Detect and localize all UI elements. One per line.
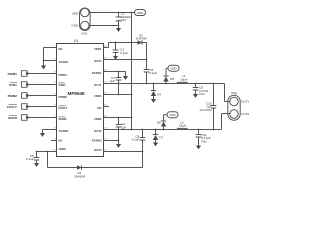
capacitor C9 (193, 84, 209, 97)
svg-text:Film: Film (199, 92, 205, 96)
wire pin18 PGND1 (104, 72, 126, 77)
power flag VDD D5 (168, 65, 179, 71)
wire rail1 OUT1 (104, 84, 230, 102)
node D4 rail1 (153, 83, 155, 85)
svg-text:CN1: CN1 (81, 32, 87, 36)
power flag VDD D6 (167, 112, 178, 118)
capacitor C1 (116, 12, 132, 26)
ground C9 (193, 94, 198, 98)
capacitor C6 (26, 152, 39, 164)
wire VDD bus (131, 13, 133, 130)
wire FAULT (29, 106, 57, 108)
node VDD bus top (131, 42, 133, 44)
svg-text:1N4148: 1N4148 (74, 174, 85, 178)
diode D4 (151, 84, 161, 100)
svg-text:Film: Film (201, 139, 207, 143)
svg-text:OUT1: OUT1 (94, 83, 102, 87)
node D6 rail2 (163, 129, 165, 131)
svg-text:OUT2: OUT2 (94, 129, 102, 133)
node BST2 (142, 151, 144, 153)
svg-text:VDD: VDD (72, 11, 79, 15)
node C8 rail2 (142, 129, 144, 131)
connector PWM1 (8, 71, 29, 77)
svg-text:10µH: 10µH (180, 77, 187, 81)
wire SHDN (29, 117, 57, 119)
capacitor C10 (200, 84, 217, 130)
capacitor C3 (110, 72, 122, 95)
ground AGND1 (41, 61, 46, 70)
svg-text:0.1µF: 0.1µF (150, 71, 158, 75)
node C4 top (118, 117, 120, 119)
node C11 rail2 (198, 129, 200, 131)
node VDD bus pin14 (131, 117, 133, 119)
svg-text:VDD2: VDD2 (94, 117, 102, 121)
svg-text:VDD: VDD (170, 67, 177, 71)
connector PWM2 (8, 93, 29, 99)
svg-text:PWM2: PWM2 (59, 95, 68, 99)
svg-text:D5: D5 (170, 77, 174, 81)
ground input (116, 26, 121, 32)
svg-text:BST1: BST1 (94, 59, 102, 63)
svg-text:VDR2: VDR2 (59, 147, 67, 151)
wire BST1 bus (146, 43, 148, 84)
svg-text:STB1: STB1 (9, 83, 17, 87)
wire pin16 VDD1 (104, 94, 132, 96)
node C3 bottom (118, 94, 120, 96)
svg-text:PGND2: PGND2 (92, 138, 102, 142)
svg-text:FAULT: FAULT (7, 105, 17, 109)
ground C6 (34, 163, 39, 167)
node AGND1 (43, 60, 45, 62)
IC U1 MP8646 (53, 39, 107, 157)
svg-text:VDD: VDD (137, 11, 144, 15)
inductor L2 (177, 121, 187, 130)
wire pin8 AGND2 (43, 129, 57, 131)
capacitor C2 (113, 43, 128, 57)
wire pin11 BST2 (104, 151, 143, 153)
connector FAULT (7, 104, 28, 110)
svg-text:OUT2: OUT2 (241, 112, 249, 116)
connector SHDN (8, 115, 28, 121)
capacitor C8 (132, 134, 146, 141)
wire pin19 BST1 (104, 59, 147, 61)
inductor L1 (177, 74, 187, 83)
svg-text:CN2: CN2 (231, 91, 237, 95)
svg-text:4: 4 (54, 82, 56, 84)
diode D7 (153, 130, 164, 143)
svg-text:PWM1: PWM1 (59, 73, 68, 77)
wire rail2 OUT2 (104, 114, 230, 130)
diode D5 (163, 68, 174, 83)
svg-text:VDD: VDD (169, 113, 176, 117)
node C1 bottom junction (118, 25, 120, 27)
node PGND2 (118, 140, 120, 142)
wire pin14 VDD2 (104, 117, 132, 119)
svg-text:Film/63V: Film/63V (200, 108, 212, 112)
node C2 junction (115, 42, 117, 44)
wire GND input (89, 25, 119, 27)
capacitor C5 (144, 68, 158, 75)
connector CN2 (228, 91, 250, 120)
diode D1 (48, 165, 143, 178)
svg-text:PWM2: PWM2 (8, 94, 18, 98)
wire pin9 stub (51, 140, 57, 142)
ground D7 (153, 143, 158, 147)
capacitor C11 (196, 130, 211, 146)
wire pin12 PGND2 (104, 140, 119, 142)
svg-text:SHDN: SHDN (8, 116, 18, 120)
wire PWM1 (29, 73, 57, 75)
node C1 top junction (118, 12, 120, 14)
svg-text:PWM1: PWM1 (8, 72, 18, 76)
node VDD bus pin16 (131, 94, 133, 96)
svg-text:VDR1: VDR1 (94, 47, 102, 51)
node C6 junction (36, 151, 38, 153)
wire VDD input rail (89, 12, 135, 14)
node C3 top (118, 71, 120, 73)
power flag VDD top (135, 10, 146, 16)
svg-text:1µF: 1µF (121, 125, 126, 129)
svg-text:1N4148: 1N4148 (136, 37, 147, 41)
svg-text:0.1µF: 0.1µF (132, 138, 140, 142)
connector STB1 (9, 82, 28, 88)
svg-text:MP8646: MP8646 (68, 91, 86, 96)
wire STB1 (29, 84, 57, 86)
wire pin2 AGND1 (44, 60, 57, 62)
svg-text:GND: GND (71, 24, 79, 28)
svg-text:NC: NC (59, 47, 63, 51)
svg-text:U1: U1 (74, 39, 79, 43)
svg-text:NC: NC (97, 106, 101, 110)
node C9 rail1 (195, 83, 197, 85)
svg-text:OUT1: OUT1 (241, 100, 249, 104)
ground D4 (151, 99, 156, 103)
svg-text:0.1µF: 0.1µF (26, 157, 34, 161)
node C10 rail1 (213, 83, 215, 85)
svg-text:AGND2: AGND2 (59, 129, 69, 133)
node BST1 rail1 (146, 83, 148, 85)
node C10 rail2 (213, 129, 215, 131)
ground PGND1 (123, 76, 128, 80)
svg-text:10µH: 10µH (179, 124, 186, 128)
svg-text:BST2: BST2 (94, 148, 102, 152)
node VDD drop junction (131, 12, 133, 14)
svg-text:VDD1: VDD1 (94, 94, 102, 98)
svg-text:FAULT: FAULT (59, 106, 68, 110)
node BST1 pin19 (146, 59, 148, 61)
svg-text:SHDN: SHDN (59, 117, 67, 121)
wire pin20 VDR1 (104, 43, 109, 48)
svg-text:D4: D4 (157, 92, 161, 96)
svg-text:1µF: 1µF (110, 79, 115, 83)
svg-text:AGND1: AGND1 (59, 60, 69, 64)
connector CN1 (71, 8, 90, 36)
wire pin1 NC tie (44, 48, 57, 61)
svg-text:STB1: STB1 (59, 83, 67, 87)
wire BST2 bus (142, 130, 144, 168)
node D5 rail1 (165, 83, 167, 85)
svg-text:16V: 16V (121, 18, 126, 22)
wire PWM2 (29, 95, 57, 97)
node D1 riser (47, 151, 49, 153)
wire pin10 VDR2 (37, 152, 57, 168)
svg-text:NC: NC (59, 138, 63, 142)
svg-text:D7: D7 (159, 136, 163, 140)
svg-text:PGND1: PGND1 (92, 71, 102, 75)
node D7 rail2 (155, 129, 157, 131)
ground PGND2 (116, 141, 121, 148)
wire pin15 stub (104, 106, 110, 108)
svg-text:D6: D6 (157, 121, 161, 125)
diode D2 (109, 33, 147, 45)
svg-text:0.1µF: 0.1µF (120, 51, 128, 55)
capacitor C4 (116, 118, 127, 141)
node VDD bus rail2 (131, 129, 133, 131)
diode D6 (157, 115, 167, 130)
ground C11 (196, 146, 201, 150)
ground C2 (113, 56, 118, 60)
ground AGND2 (40, 130, 45, 137)
